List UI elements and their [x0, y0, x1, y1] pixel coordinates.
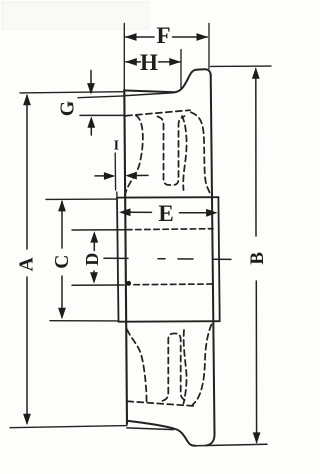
web right outer dashed curve top: [191, 112, 211, 195]
tread bottom second line: [127, 428, 174, 430]
svg-text:E: E: [158, 201, 173, 226]
arrowhead B bottom: [253, 432, 261, 444]
arrowhead I right: [125, 172, 137, 180]
arrowhead A top: [23, 94, 31, 106]
arrowhead C bottom: [58, 308, 66, 320]
dimension F line: [126, 36, 208, 38]
web mid-right dashed curve bottom: [184, 330, 187, 404]
tread top second line: [124, 93, 173, 96]
faint scan patch top-left: [2, 2, 148, 29]
arrowhead D top: [90, 231, 98, 243]
extension line A top: [20, 92, 124, 93]
hub left face: [117, 198, 119, 322]
arrowhead F left: [125, 33, 137, 41]
svg-text:B: B: [247, 252, 268, 265]
arrowhead E right: [206, 209, 218, 217]
web center dashed column bottom: [163, 334, 187, 401]
svg-text:I: I: [114, 139, 119, 154]
web left dashed curve bottom: [127, 328, 147, 401]
web center dashed column top: [158, 116, 185, 185]
extension line G top: [78, 96, 124, 98]
dimension A line: [26, 96, 28, 424]
wheel back face: [124, 90, 127, 424]
svg-text:A: A: [17, 257, 38, 271]
dimension D line: [93, 242, 95, 280]
hub right face: [218, 197, 219, 321]
dimension C line: [61, 202, 63, 318]
rim inner dashed line top: [126, 110, 190, 116]
svg-text:D: D: [82, 253, 102, 266]
hub top edge: [117, 196, 218, 198]
arrowhead G bottom: [87, 116, 95, 128]
extension line H right: [180, 50, 182, 89]
svg-text:F: F: [156, 23, 170, 48]
flange bottom edge + extension line B bottom: [195, 444, 267, 446]
bore top hidden line: [72, 229, 124, 231]
extension line F left: [123, 23, 125, 89]
arrowhead E left: [119, 208, 131, 216]
bore bottom hidden line: [72, 284, 124, 286]
front face bottom corner arc: [206, 434, 215, 446]
svg-text:G: G: [57, 100, 79, 116]
dimension B line: [255, 69, 258, 443]
svg-text:H: H: [140, 50, 158, 75]
extension line A bottom: [10, 426, 127, 428]
arrowhead G top: [87, 83, 95, 95]
junction dot on bore line: [126, 281, 131, 286]
tread top line + flange top profile: [124, 69, 210, 92]
extension line B top: [211, 65, 271, 67]
arrowhead H left: [125, 58, 137, 66]
dimension E line: [130, 211, 207, 214]
dimension G arrow shafts: [90, 71, 92, 136]
arrowhead F right: [197, 33, 209, 41]
svg-text:C: C: [52, 255, 73, 269]
arrowhead I left: [104, 172, 116, 180]
extension line G bottom (rim inner): [80, 114, 124, 116]
extension line F right: [208, 23, 210, 68]
arrowhead A bottom: [23, 414, 31, 426]
tread bottom line + flange bottom profile: [127, 421, 195, 446]
extension line C top: [46, 198, 117, 200]
hub bottom edge: [119, 320, 220, 323]
web right outer dashed curve bottom: [193, 325, 212, 405]
extension line C bottom: [50, 320, 119, 322]
arrowhead B top: [252, 67, 260, 79]
centerline: [104, 258, 231, 259]
dimension I arrow tails: [95, 174, 148, 177]
wheel front face: [211, 75, 215, 435]
web mid-right dashed curve top: [182, 116, 187, 190]
arrowhead C top: [58, 200, 66, 212]
extension line I (hub face up): [115, 153, 117, 198]
arrowhead D bottom: [90, 272, 98, 284]
rim inner dashed line bottom: [127, 401, 194, 406]
arrowhead H right: [169, 58, 181, 66]
dimension H line: [126, 61, 180, 63]
web left dashed curve top: [125, 116, 143, 196]
